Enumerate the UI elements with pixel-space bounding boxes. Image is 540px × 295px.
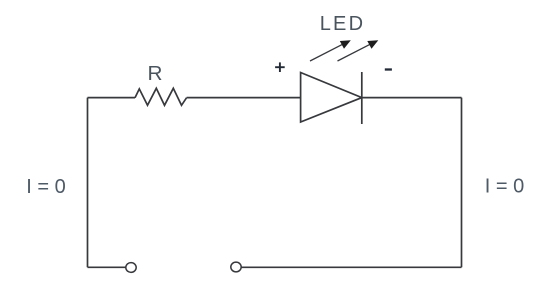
LED light-emission arrow 1 (310, 40, 351, 61)
switch S1 right terminal (231, 262, 241, 272)
wire bottom-left segment (88, 266, 127, 268)
svg-text:R: R (148, 63, 163, 85)
label + (anode polarity) (275, 62, 285, 72)
resistor R (135, 88, 187, 105)
switch S1 left terminal (126, 263, 136, 273)
LED D1 triangle (anode) (301, 73, 362, 123)
label I = 0 (right) (485, 176, 524, 198)
LED light-emission arrow 2 (338, 40, 379, 61)
wire top-middle segment (187, 97, 301, 99)
label - (cathode polarity) (385, 68, 392, 70)
svg-text:I = 0: I = 0 (26, 176, 65, 198)
svg-text:LED: LED (320, 13, 366, 35)
label R (148, 63, 163, 85)
wire bottom-right segment (241, 266, 462, 268)
LED D1 cathode bar (361, 72, 363, 124)
svg-text:I = 0: I = 0 (485, 176, 524, 198)
wire right vertical (461, 98, 463, 268)
label LED (320, 13, 366, 35)
wire top-left segment (88, 97, 136, 99)
wire top-right segment (362, 97, 462, 99)
label I = 0 (left) (26, 176, 65, 198)
wire left vertical (87, 98, 89, 268)
